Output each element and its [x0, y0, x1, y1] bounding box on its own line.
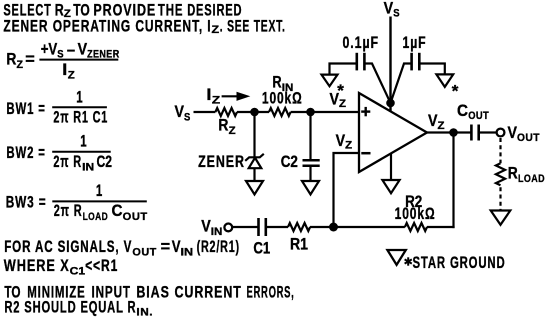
svg-text:1: 1: [80, 133, 86, 151]
svg-text:OUT: OUT: [468, 110, 489, 122]
resistor R2: [405, 223, 427, 231]
svg-text:V: V: [330, 91, 340, 109]
svg-text:FOR AC SIGNALS, V: FOR AC SIGNALS, V: [4, 238, 132, 256]
capacitor 1uF plates: [410, 53, 413, 71]
svg-text:IN: IN: [82, 161, 94, 173]
wire C1 to R1: [266, 226, 288, 228]
wire bottom R2 right: [427, 226, 455, 228]
svg-text:1: 1: [96, 182, 102, 200]
svg-text:ZENER: ZENER: [198, 153, 245, 171]
capacitor 0.1uF plates: [355, 53, 358, 71]
svg-text:R: R: [218, 117, 228, 135]
resistor R1: [288, 223, 310, 231]
svg-text:Z: Z: [438, 120, 445, 132]
svg-text:C2: C2: [281, 153, 298, 171]
svg-text:V: V: [172, 238, 181, 256]
svg-text:IN.: IN.: [136, 306, 153, 318]
svg-text:C: C: [457, 102, 468, 120]
svg-text:100kΩ: 100kΩ: [395, 205, 436, 223]
svg-text:Z: Z: [339, 98, 346, 110]
junction inverting node dot: [329, 223, 338, 232]
svg-text:ERRORS,: ERRORS,: [247, 283, 295, 301]
svg-text:BW1 =: BW1 =: [6, 100, 45, 118]
svg-text:. SEE TEXT.: . SEE TEXT.: [220, 18, 286, 36]
capacitor C2: [303, 159, 320, 162]
terminal VIN circle: [224, 224, 232, 232]
wire COUT to VOUT terminal: [479, 131, 497, 133]
ground (op-amp): [382, 180, 399, 193]
wire inverting input: [334, 153, 360, 227]
ground star (0.1uF): [322, 75, 338, 87]
resistor RIN: [269, 108, 291, 116]
op-amp U1: [359, 93, 427, 172]
terminal VOUT circle: [497, 129, 505, 137]
svg-text:Z: Z: [229, 125, 236, 137]
resistor RZ: [215, 108, 237, 116]
svg-text:V: V: [78, 40, 88, 58]
svg-text:Z: Z: [345, 140, 352, 152]
svg-text:Z: Z: [17, 59, 24, 71]
svg-text:<<R1: <<R1: [85, 257, 118, 275]
svg-text:R2 SHOULD EQUAL R: R2 SHOULD EQUAL R: [4, 298, 136, 316]
svg-text:V: V: [336, 132, 346, 150]
junction C2 node dot: [306, 108, 315, 117]
svg-text:R: R: [508, 165, 518, 183]
junction zener node dot: [250, 108, 259, 117]
svg-text:R: R: [6, 51, 16, 69]
ground (load): [491, 211, 511, 225]
svg-text:V: V: [508, 124, 518, 142]
svg-text:R1: R1: [290, 236, 308, 254]
svg-text:=: =: [161, 238, 171, 256]
svg-text:LOAD: LOAD: [83, 211, 109, 223]
op-amp + pin: [361, 107, 370, 116]
current IZ arrow: [222, 95, 239, 97]
svg-text:OUT: OUT: [517, 132, 540, 144]
svg-text:C1: C1: [70, 265, 85, 277]
wire RZ to RIN: [237, 111, 269, 113]
junction output node dot: [449, 128, 458, 137]
svg-text:OUT: OUT: [132, 247, 156, 259]
capacitor COUT plates: [470, 125, 473, 141]
svg-text:Z: Z: [68, 69, 75, 81]
wire opamp output: [427, 131, 471, 133]
svg-text:2π R: 2π R: [54, 202, 83, 220]
svg-text:100kΩ: 100kΩ: [262, 90, 303, 108]
wire dashed RLOAD to ground: [499, 187, 501, 210]
wire VS vertical: [389, 17, 391, 112]
ground star legend symbol: [387, 250, 405, 265]
wire VS to RZ: [194, 111, 216, 113]
svg-text:ZENER OPERATING CURRENT, I: ZENER OPERATING CURRENT, I: [3, 18, 211, 36]
svg-text:Z: Z: [212, 94, 221, 106]
wire R2 to inverting junction: [334, 226, 405, 228]
svg-text:C1: C1: [253, 239, 270, 257]
svg-text:C2: C2: [97, 153, 113, 171]
svg-text:S: S: [184, 112, 190, 124]
wire 0.1uF right lead to VS node: [364, 64, 390, 104]
svg-text:1: 1: [76, 88, 82, 106]
svg-text:Z: Z: [212, 24, 220, 36]
fraction bar BW1: [52, 106, 107, 108]
fraction bar BW2: [52, 151, 110, 153]
wire VIN to C1: [232, 226, 258, 228]
ground star (1uF): [436, 74, 453, 87]
svg-text:I: I: [62, 61, 67, 79]
svg-text:2π R: 2π R: [53, 153, 82, 171]
svg-text:V: V: [175, 103, 185, 121]
svg-text:IN: IN: [211, 226, 223, 238]
wire C2 top lead: [309, 112, 311, 160]
wire 1uF right lead: [419, 64, 445, 75]
fraction bar RZ: [39, 59, 118, 61]
svg-text:–: –: [67, 41, 75, 59]
resistor RLOAD: [496, 163, 505, 185]
zener diode ZENER: [245, 154, 264, 161]
ground (C2): [302, 181, 319, 194]
svg-text:OUT: OUT: [123, 211, 148, 223]
svg-text:STAR GROUND: STAR GROUND: [413, 254, 506, 272]
wire dashed VOUT to RLOAD: [499, 138, 501, 163]
svg-text:WHERE X: WHERE X: [4, 257, 70, 275]
svg-text:BW3 =: BW3 =: [6, 194, 47, 212]
svg-text:C: C: [112, 202, 123, 220]
capacitor C1 plates: [257, 218, 260, 236]
svg-text:I: I: [206, 86, 211, 104]
wire zener anode: [253, 112, 255, 158]
svg-text:=: =: [25, 51, 35, 69]
svg-text:BIAS: BIAS: [136, 283, 169, 301]
svg-text:+V: +V: [41, 40, 58, 58]
wire RIN to opamp + input: [291, 111, 359, 113]
svg-text:2π R1 C1: 2π R1 C1: [53, 109, 108, 127]
svg-text:CURRENT: CURRENT: [175, 283, 242, 301]
wire opamp ground lead: [390, 154, 392, 180]
wire 1uF left lead to VS node: [391, 64, 412, 104]
svg-text:IN: IN: [181, 247, 194, 259]
ground (zener): [246, 181, 263, 194]
svg-text:V: V: [201, 218, 211, 236]
star ground legend text: [405, 257, 412, 265]
svg-text:S: S: [393, 7, 399, 19]
svg-text:BW2 =: BW2 =: [6, 144, 45, 162]
op-amp - pin: [361, 152, 370, 155]
junction VS node dot: [386, 99, 395, 108]
svg-text:0.1µF: 0.1µF: [343, 34, 380, 52]
wire output feedback vertical: [452, 133, 454, 229]
svg-text:(R2/R1): (R2/R1): [197, 238, 240, 256]
wire R1 to junction: [310, 226, 334, 228]
svg-text:V: V: [428, 112, 438, 130]
svg-text:V: V: [384, 0, 394, 18]
svg-text:LOAD: LOAD: [518, 173, 545, 185]
svg-text:1µF: 1µF: [403, 34, 427, 52]
wire 0.1uF left lead: [330, 64, 357, 75]
svg-text:*: *: [452, 82, 459, 101]
fraction bar BW3: [52, 200, 147, 202]
